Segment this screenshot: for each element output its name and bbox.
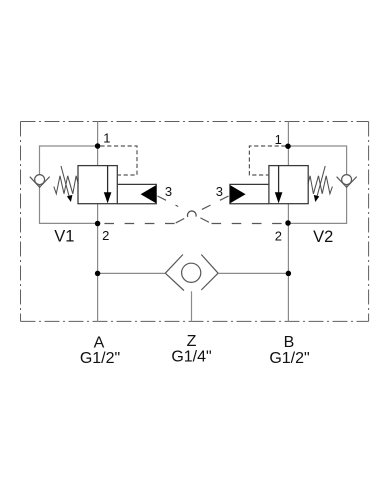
pilot actuator box V1 (117, 184, 156, 203)
shuttle valve seat (165, 255, 218, 291)
spring V1 adjust arrow (61, 166, 72, 202)
node 2 (V2) (285, 220, 291, 226)
svg-text:Z: Z (187, 333, 197, 350)
enclosure boundary (dash-dot) (21, 122, 369, 322)
svg-text:V2: V2 (313, 228, 333, 246)
svg-text:1: 1 (275, 132, 282, 147)
wire port Z vertical (191, 291, 193, 321)
valve body V1 (78, 166, 117, 204)
svg-text:V1: V1 (54, 228, 74, 246)
valve body V2 (269, 166, 308, 204)
node 1 (V2) (285, 143, 291, 149)
svg-text:3: 3 (216, 184, 223, 199)
svg-text:A: A (94, 334, 105, 351)
svg-text:2: 2 (102, 228, 109, 243)
wire V1 bypass loop (40, 146, 98, 223)
wire A-B cross connection (98, 272, 289, 274)
node on A line (95, 271, 101, 277)
svg-text:1: 1 (103, 130, 110, 145)
svg-text:2: 2 (275, 228, 282, 243)
node on B line (286, 271, 292, 277)
svg-text:B: B (284, 334, 295, 351)
wire port B vertical (287, 122, 289, 322)
spring V2 adjust arrow (314, 166, 325, 202)
cross pilot line from V2 port 3 to V1 node 2 (dashed, with jump) (100, 196, 228, 224)
wire port A vertical (97, 122, 99, 322)
svg-text:G1/2": G1/2" (269, 350, 309, 367)
svg-text:3: 3 (165, 184, 172, 199)
pilot sense line V1 (dashed from node 1 to valve) (100, 146, 137, 175)
node 1 (V1) (95, 143, 101, 149)
flow arrow V1 (104, 166, 112, 204)
check valve V2 (337, 175, 357, 188)
pilot triangle V1 (141, 185, 157, 203)
pilot sense line V2 (dashed from node 1 to valve) (249, 146, 285, 175)
line jump arc (187, 211, 196, 217)
flow arrow V2 (275, 166, 283, 204)
wire V2 bypass loop (288, 146, 346, 223)
pilot actuator box V2 (230, 184, 269, 203)
cross pilot line from V1 port 3 to V2 node 2 (dashed) (158, 196, 286, 224)
check valve V1 (30, 175, 50, 188)
svg-text:G1/4": G1/4" (171, 349, 211, 366)
shuttle valve ball (182, 263, 201, 282)
node 2 (V1) (95, 221, 101, 227)
pilot triangle V2 (230, 185, 246, 203)
spring V2 (308, 176, 333, 194)
svg-text:G1/2": G1/2" (80, 350, 120, 367)
spring V1 (54, 176, 79, 194)
